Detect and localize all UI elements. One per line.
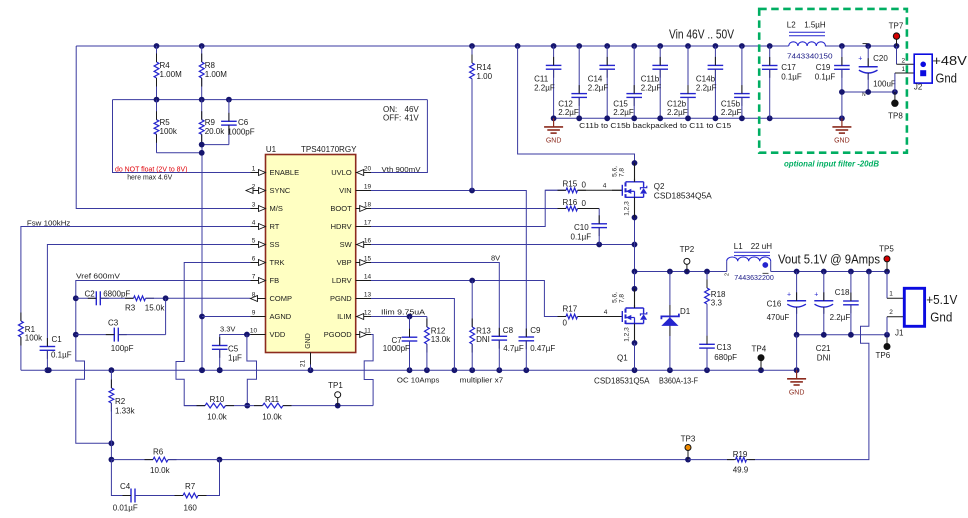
wire VIN feed to Q2 drain <box>518 46 638 166</box>
svg-text:SS: SS <box>270 240 280 249</box>
svg-text:R2: R2 <box>115 397 126 406</box>
diode D1 B360A-13-F <box>659 272 698 386</box>
svg-text:R5: R5 <box>160 118 171 127</box>
svg-text:7,8: 7,8 <box>619 168 626 177</box>
wire TRK net <box>176 263 251 406</box>
svg-text:0: 0 <box>582 180 587 189</box>
wire COMP net <box>163 295 251 334</box>
resistor R5 <box>154 100 178 153</box>
wire R5 bottom to R9 bottom <box>157 152 202 154</box>
svg-text:5,6,: 5,6, <box>612 292 619 303</box>
svg-text:2.2µF: 2.2µF <box>830 313 851 322</box>
node do NOT float warning <box>115 165 188 182</box>
svg-text:4.7µF: 4.7µF <box>503 344 524 353</box>
svg-text:here max 4.6V: here max 4.6V <box>127 173 172 182</box>
svg-text:1,2,3: 1,2,3 <box>624 201 631 216</box>
svg-text:2: 2 <box>901 57 905 64</box>
svg-text:L1: L1 <box>734 242 743 251</box>
svg-text:0.1µF: 0.1µF <box>815 73 836 82</box>
svg-text:7443632200: 7443632200 <box>734 273 774 282</box>
svg-text:3: 3 <box>252 201 256 208</box>
ground output GND symbol <box>787 370 806 396</box>
svg-text:GND: GND <box>305 333 312 349</box>
svg-text:1000pF: 1000pF <box>383 344 410 353</box>
svg-text:17: 17 <box>364 219 372 226</box>
svg-text:2.2µF: 2.2µF <box>534 84 555 93</box>
svg-text:R19: R19 <box>733 450 748 459</box>
resistor R15 <box>545 179 623 192</box>
svg-text:4: 4 <box>603 182 607 189</box>
resistor R12 <box>425 319 452 371</box>
wire C4/R7 branch <box>111 460 219 496</box>
wire SW phase rail <box>632 269 727 275</box>
svg-text:GND: GND <box>834 138 850 145</box>
capacitor C10 <box>571 215 608 244</box>
wire HDRV net <box>371 190 565 226</box>
svg-text:1.5µH: 1.5µH <box>804 21 826 30</box>
test point TP4 <box>752 345 767 371</box>
svg-text:TP4: TP4 <box>752 345 767 354</box>
svg-text:41V: 41V <box>405 114 420 123</box>
wire ENABLE net <box>113 100 251 173</box>
svg-text:+5.1V: +5.1V <box>926 292 957 307</box>
wire capacitor bank ground rail <box>551 115 845 121</box>
svg-text:0: 0 <box>563 319 568 328</box>
svg-text:GND: GND <box>789 389 805 396</box>
svg-text:TP7: TP7 <box>889 22 904 31</box>
svg-text:multiplier x7: multiplier x7 <box>460 376 504 385</box>
svg-text:C6: C6 <box>238 118 249 127</box>
svg-text:Q2: Q2 <box>654 182 665 191</box>
capacitor C11 <box>534 46 561 118</box>
svg-text:R10: R10 <box>210 395 225 404</box>
svg-text:18: 18 <box>364 201 372 208</box>
svg-text:Vth 900mV: Vth 900mV <box>382 165 421 174</box>
svg-text:7443340150: 7443340150 <box>787 52 833 61</box>
svg-text:19: 19 <box>364 183 372 190</box>
resistor R4 <box>154 46 182 100</box>
svg-text:Ilim 9.75uA: Ilim 9.75uA <box>381 307 425 316</box>
svg-text:680pF: 680pF <box>714 353 737 362</box>
svg-text:100uF: 100uF <box>873 80 896 89</box>
test point TP5 <box>879 245 894 272</box>
svg-text:14: 14 <box>364 273 372 280</box>
svg-text:C18: C18 <box>835 288 850 297</box>
test point TP7 <box>889 22 904 47</box>
svg-text:2.2µF: 2.2µF <box>721 108 742 117</box>
svg-text:0.01µF: 0.01µF <box>113 504 138 513</box>
svg-text:optional input filter -20dB: optional input filter -20dB <box>784 160 879 169</box>
resistor R9 <box>199 100 225 145</box>
svg-text:R11: R11 <box>265 395 280 404</box>
capacitor C2 <box>76 290 134 306</box>
svg-text:AGND: AGND <box>270 312 292 321</box>
wire FB net Vref <box>73 281 251 447</box>
wire AGND vertical net <box>199 142 205 373</box>
capacitor C4 <box>113 482 144 513</box>
svg-text:7: 7 <box>252 273 256 280</box>
wire J2 pin2 +48V stub <box>897 46 920 64</box>
svg-text:FB: FB <box>270 276 280 285</box>
node OC 10Amps label <box>397 376 440 385</box>
svg-text:Fsw 100kHz: Fsw 100kHz <box>27 218 71 227</box>
test point TP8 <box>888 92 903 121</box>
svg-text:C1: C1 <box>52 335 63 344</box>
inductor L1 22uH <box>725 242 774 282</box>
capacitor C7 <box>383 317 418 371</box>
svg-text:46V: 46V <box>405 105 420 114</box>
svg-text:COMP: COMP <box>270 294 293 303</box>
svg-text:160: 160 <box>184 504 198 513</box>
svg-text:C14: C14 <box>588 75 603 84</box>
svg-text:10: 10 <box>250 327 258 334</box>
svg-text:R6: R6 <box>153 448 164 457</box>
svg-text:1,2,3: 1,2,3 <box>624 327 631 342</box>
svg-text:R7: R7 <box>185 482 196 491</box>
svg-text:D1: D1 <box>680 307 691 316</box>
node multiplier x7 label <box>460 376 504 385</box>
svg-text:TP2: TP2 <box>680 245 695 254</box>
capacitor C17 <box>762 46 802 118</box>
capacitor C8 <box>492 326 524 370</box>
svg-text:13.0k: 13.0k <box>431 335 452 344</box>
svg-text:10.0k: 10.0k <box>262 413 283 422</box>
capacitor C20 100uF <box>858 44 896 92</box>
capacitor C13 <box>699 336 737 370</box>
inductor L2 1.5uH <box>787 21 833 61</box>
svg-text:J2: J2 <box>914 83 923 92</box>
svg-text:GND: GND <box>546 138 562 145</box>
svg-text:13: 13 <box>364 291 372 298</box>
svg-text:Gnd: Gnd <box>930 309 952 324</box>
svg-text:20.0k: 20.0k <box>205 127 226 136</box>
wire SW net <box>371 215 637 272</box>
svg-text:10.0k: 10.0k <box>150 466 171 475</box>
wire SS net <box>47 245 250 347</box>
svg-text:CSD18531Q5A: CSD18531Q5A <box>594 377 650 386</box>
wire AGND ground bus <box>21 367 800 373</box>
capacitor C12b <box>667 46 696 118</box>
svg-text:0.1µF: 0.1µF <box>51 351 72 360</box>
transistor Q1 CSD18531Q5A <box>594 272 650 386</box>
svg-text:HDRV: HDRV <box>331 222 352 231</box>
svg-text:0: 0 <box>582 199 587 208</box>
resistor R14 <box>470 46 493 191</box>
svg-text:7,8: 7,8 <box>619 294 626 303</box>
svg-text:ILIM: ILIM <box>337 312 352 321</box>
wire Vout rail <box>771 269 890 275</box>
svg-text:100pF: 100pF <box>111 344 134 353</box>
svg-text:BOOT: BOOT <box>330 204 352 213</box>
svg-text:15: 15 <box>364 255 372 262</box>
svg-text:5,6,: 5,6, <box>612 166 619 177</box>
svg-text:C2: C2 <box>85 290 96 299</box>
svg-text:11: 11 <box>364 327 371 334</box>
svg-text:+: + <box>787 292 791 299</box>
svg-text:SW: SW <box>340 240 353 249</box>
capacitor C11b <box>641 46 668 118</box>
node optional input filter box <box>759 9 907 169</box>
svg-text:Vref 600mV: Vref 600mV <box>76 272 120 281</box>
svg-text:TP1: TP1 <box>328 381 343 390</box>
node 3.3V label <box>220 325 235 334</box>
svg-text:4: 4 <box>252 219 256 226</box>
resistor R10 <box>197 395 235 422</box>
svg-text:1.33k: 1.33k <box>115 407 136 416</box>
svg-text:100k: 100k <box>160 127 178 136</box>
wire ENABLE/UVLO divider node <box>113 97 428 103</box>
svg-text:DNI: DNI <box>476 335 490 344</box>
svg-text:DNI: DNI <box>817 354 831 363</box>
svg-text:2.2µF: 2.2µF <box>558 108 579 117</box>
svg-text:Gnd: Gnd <box>936 71 958 86</box>
svg-text:C16: C16 <box>767 300 782 309</box>
svg-text:10.0k: 10.0k <box>207 413 228 422</box>
node Vin label <box>669 28 735 42</box>
svg-text:U1: U1 <box>266 145 277 154</box>
svg-text:C5: C5 <box>228 345 239 354</box>
svg-text:5: 5 <box>252 237 256 244</box>
svg-text:2: 2 <box>725 273 731 276</box>
ground filter GND symbol <box>832 118 851 144</box>
svg-text:+: + <box>814 292 818 299</box>
svg-text:TP6: TP6 <box>876 351 891 360</box>
node Vth 900mV label <box>382 165 421 174</box>
svg-text:1.00M: 1.00M <box>160 70 183 79</box>
svg-text:TP3: TP3 <box>681 435 696 444</box>
svg-text:VBP: VBP <box>337 258 352 267</box>
capacitor C15b <box>721 46 750 118</box>
svg-text:2.2µF: 2.2µF <box>588 84 609 93</box>
svg-text:C4: C4 <box>120 482 131 491</box>
capacitor C14 <box>588 46 615 118</box>
svg-text:49.9: 49.9 <box>733 466 749 475</box>
svg-text:22 uH: 22 uH <box>751 242 773 251</box>
capacitor C6 <box>221 100 255 145</box>
svg-text:OC 10Amps: OC 10Amps <box>397 376 440 385</box>
svg-text:C20: C20 <box>873 54 888 63</box>
capacitor C16 470uF <box>767 272 807 335</box>
svg-text:R16: R16 <box>563 198 578 207</box>
test point TP3 <box>681 435 696 460</box>
svg-text:+: + <box>858 56 862 63</box>
svg-text:470uF: 470uF <box>767 313 790 322</box>
capacitor C19 <box>815 46 850 92</box>
svg-text:J1: J1 <box>895 328 904 337</box>
wire pin 21 GND stub <box>300 353 311 371</box>
svg-text:R9: R9 <box>205 118 216 127</box>
svg-text:1: 1 <box>889 291 893 298</box>
wire J1 pin1 net <box>887 272 904 299</box>
svg-text:2.2µF: 2.2µF <box>667 108 688 117</box>
svg-text:2: 2 <box>889 309 893 316</box>
wire PGND net <box>371 299 454 371</box>
svg-text:+48V: +48V <box>932 53 967 68</box>
wire J1 pin2 net <box>887 309 904 335</box>
svg-text:TRK: TRK <box>270 258 285 267</box>
capacitor C3 <box>76 319 166 354</box>
svg-text:100k: 100k <box>25 334 43 343</box>
svg-text:15.0k: 15.0k <box>145 304 166 313</box>
resistor R6 <box>111 448 219 476</box>
svg-text:0.1µF: 0.1µF <box>571 233 592 242</box>
svg-text:OFF:: OFF: <box>383 114 401 123</box>
svg-text:R4: R4 <box>160 61 171 70</box>
resistor R7 <box>135 482 207 513</box>
wire R10/R11 row <box>184 403 373 409</box>
node backpacked note <box>579 121 731 130</box>
node Vref 600mV label <box>76 272 120 281</box>
wire C6 bottom to R9 bottom <box>202 144 229 146</box>
wire Vout feedback tap <box>749 272 869 460</box>
wire C19 to filter ground <box>839 89 845 118</box>
wire ILIM net <box>371 314 427 327</box>
svg-text:C8: C8 <box>503 326 514 335</box>
svg-text:1: 1 <box>252 165 256 172</box>
wire VDD net 3.3V <box>220 332 257 409</box>
svg-text:L2: L2 <box>787 21 796 30</box>
svg-text:B360A-13-F: B360A-13-F <box>659 377 698 386</box>
svg-text:M/S: M/S <box>270 204 283 213</box>
wire output cap ground rail <box>794 332 890 370</box>
svg-text:C17: C17 <box>781 63 796 72</box>
wire filter negative rail <box>842 66 920 98</box>
op-amp U1 TPS40170RGY controller <box>246 145 371 353</box>
svg-text:R8: R8 <box>205 61 216 70</box>
svg-text:TP5: TP5 <box>879 245 894 254</box>
capacitor C21 DNI <box>814 272 833 363</box>
wire PGOOD net <box>364 335 373 406</box>
svg-text:2.2µF: 2.2µF <box>641 84 662 93</box>
svg-text:C11b: C11b <box>641 75 660 84</box>
svg-text:ON:: ON: <box>383 105 397 114</box>
svg-text:20: 20 <box>364 165 372 172</box>
svg-text:TPS40170RGY: TPS40170RGY <box>301 145 357 154</box>
wire VIN input bus <box>76 43 899 49</box>
svg-text:21: 21 <box>300 360 307 368</box>
svg-text:VIN: VIN <box>339 186 352 195</box>
capacitor C1 <box>40 335 72 373</box>
svg-text:1: 1 <box>901 66 905 73</box>
svg-text:C10: C10 <box>574 223 589 232</box>
capacitor C5 <box>212 337 242 373</box>
svg-text:3.3: 3.3 <box>711 298 723 307</box>
svg-text:3.3V: 3.3V <box>220 325 235 334</box>
svg-text:C3: C3 <box>108 319 119 328</box>
svg-text:TP8: TP8 <box>888 112 903 121</box>
svg-text:8V: 8V <box>491 254 500 263</box>
wire LDRV net <box>371 278 566 317</box>
svg-text:C14b: C14b <box>696 75 716 84</box>
wire AGND pin net <box>202 316 251 318</box>
wire BOOT net <box>371 209 599 224</box>
svg-text:VDD: VDD <box>270 330 286 339</box>
svg-text:C19: C19 <box>816 63 831 72</box>
svg-text:R15: R15 <box>563 179 578 188</box>
svg-text:6: 6 <box>252 255 256 262</box>
resistor R19 <box>727 450 755 475</box>
node Vout label <box>778 253 880 267</box>
svg-text:Vout 5.1V @ 9Amps: Vout 5.1V @ 9Amps <box>778 253 880 267</box>
svg-text:9: 9 <box>252 309 256 316</box>
svg-text:C13: C13 <box>717 343 732 352</box>
wire UVLO net <box>371 100 427 173</box>
node annotation ON/OFF thresholds <box>383 105 419 123</box>
capacitor C9 <box>519 326 556 370</box>
connector J1 <box>895 288 958 337</box>
capacitor C15 <box>613 46 642 118</box>
svg-text:2.2µF: 2.2µF <box>613 108 634 117</box>
svg-text:N: N <box>862 92 866 98</box>
svg-text:R14: R14 <box>477 63 492 72</box>
wire VIN pin net <box>371 188 526 337</box>
svg-text:UVLO: UVLO <box>331 168 352 177</box>
svg-text:R3: R3 <box>125 304 136 313</box>
resistor R17 <box>558 305 623 328</box>
svg-text:ENABLE: ENABLE <box>270 168 300 177</box>
test point TP1 <box>328 381 343 406</box>
svg-text:Q1: Q1 <box>617 354 628 363</box>
resistor R18 <box>705 272 726 345</box>
ground input GND symbol <box>544 118 563 144</box>
svg-text:2.2µF: 2.2µF <box>696 84 717 93</box>
test point TP6 <box>876 338 891 360</box>
svg-text:6800pF: 6800pF <box>103 290 130 299</box>
svg-text:PGOOD: PGOOD <box>324 330 353 339</box>
svg-text:C11b to C15b backpacked to C11: C11b to C15b backpacked to C11 to C15 <box>579 121 731 130</box>
capacitor C14b <box>696 46 723 118</box>
svg-text:1µF: 1µF <box>228 354 242 363</box>
resistor R11 <box>254 395 292 422</box>
svg-text:1.00M: 1.00M <box>205 70 228 79</box>
wire RT net Fsw <box>21 227 251 371</box>
svg-text:SYNC: SYNC <box>270 186 291 195</box>
connector J2 <box>914 53 967 92</box>
node Ilim 9.75uA label <box>381 307 425 316</box>
wire VBP net 8V <box>371 254 500 337</box>
svg-text:CSD18534Q5A: CSD18534Q5A <box>654 191 713 200</box>
svg-text:C21: C21 <box>816 344 831 353</box>
test point TP2 <box>680 245 695 272</box>
svg-text:LDRV: LDRV <box>332 276 352 285</box>
resistor R13 <box>470 281 492 371</box>
svg-text:C11: C11 <box>534 75 549 84</box>
transistor Q2 CSD18534Q5A <box>612 163 713 218</box>
resistor R16 <box>558 198 587 211</box>
svg-text:16: 16 <box>364 237 372 244</box>
svg-text:1000pF: 1000pF <box>228 128 255 137</box>
svg-text:RT: RT <box>270 222 280 231</box>
capacitor C12 <box>558 46 587 118</box>
wire M/S net <box>76 46 250 209</box>
svg-text:R17: R17 <box>563 305 578 314</box>
svg-text:4: 4 <box>604 309 608 316</box>
svg-text:1.00: 1.00 <box>477 72 493 81</box>
svg-text:C9: C9 <box>530 326 541 335</box>
capacitor C18 <box>830 272 859 335</box>
resistor R2 <box>109 370 136 462</box>
svg-text:PGND: PGND <box>330 294 352 303</box>
svg-text:0.1µF: 0.1µF <box>781 73 802 82</box>
resistor R8 <box>199 46 227 100</box>
node Fsw 100kHz label <box>27 218 71 227</box>
svg-text:0.47µF: 0.47µF <box>530 344 555 353</box>
svg-text:Vin 46V .. 50V: Vin 46V .. 50V <box>669 28 735 42</box>
resistor R3 <box>125 296 166 313</box>
svg-text:12: 12 <box>364 309 372 316</box>
resistor R1 <box>19 313 44 346</box>
wire feedback bottom row <box>217 457 734 463</box>
